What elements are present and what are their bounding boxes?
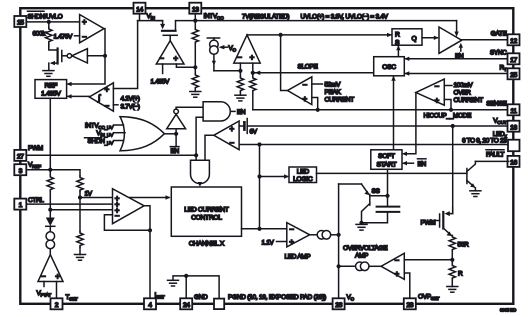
svg-text:HICCUP__MODE: HICCUP__MODE xyxy=(424,112,472,119)
op-amp VPTAT xyxy=(38,255,63,282)
current source PTAT xyxy=(46,232,55,255)
wire FAULT line xyxy=(475,160,508,162)
pin LEDx box xyxy=(508,140,520,152)
svg-text:OVERVOLTAGE: OVERVOLTAGE xyxy=(343,245,388,252)
svg-text:SS: SS xyxy=(372,188,381,195)
wire EN into SOFT START xyxy=(402,161,414,165)
node 52mV tap on SENSE xyxy=(316,108,320,112)
ground 1V resistor xyxy=(75,255,86,261)
svg-text:+: + xyxy=(105,85,110,94)
wire VOUT line xyxy=(247,125,509,127)
svg-text:+: + xyxy=(250,53,255,62)
svg-text:6V: 6V xyxy=(250,128,258,135)
ground GND pin network xyxy=(168,276,187,286)
label 100mV OVER CURRENT xyxy=(444,82,483,104)
svg-text:SENSE: SENSE xyxy=(486,100,507,107)
resistor INTVCC divider lower xyxy=(192,67,198,91)
svg-text:SLOPE: SLOPE xyxy=(298,64,319,71)
wire VIN line xyxy=(138,20,163,22)
svg-text:+: + xyxy=(303,94,308,103)
wire VC vertical xyxy=(338,184,340,298)
wire OSC to SOFT START vertical xyxy=(391,76,395,150)
svg-text:−: − xyxy=(115,211,120,220)
svg-text:PWM: PWM xyxy=(28,145,43,152)
svg-text:+: + xyxy=(173,54,178,63)
svg-text:17: 17 xyxy=(510,57,517,64)
wire into LED LOGIC xyxy=(260,174,290,178)
svg-text:100mV: 100mV xyxy=(454,82,474,89)
transistor M1 shutdown NMOS xyxy=(49,44,62,71)
wire soft start output xyxy=(387,169,389,206)
wire LED line xyxy=(239,144,509,146)
svg-text:6 TO 9, 20 TO 23: 6 TO 9, 20 TO 23 xyxy=(462,137,507,144)
node junction SHDN/600k xyxy=(47,20,51,24)
wire S input from OSC xyxy=(396,45,400,57)
pin 26 VC xyxy=(333,298,345,309)
svg-text:LOGIC: LOGIC xyxy=(293,176,313,183)
resistor slope/sense summing xyxy=(250,73,256,110)
gate AND output stage xyxy=(191,160,210,187)
transistor fault NPN xyxy=(467,161,476,190)
battery 6V xyxy=(239,119,247,134)
svg-text:SOFT: SOFT xyxy=(378,153,395,160)
node SS xyxy=(385,194,389,198)
op-amp VIN UVLO hysteresis comparator xyxy=(89,83,113,111)
wire exposed pad riser xyxy=(186,276,219,299)
svg-text:RT: RT xyxy=(500,64,507,73)
pin 18 VOUT xyxy=(508,121,520,132)
svg-text:+: + xyxy=(55,272,60,281)
wire pin 13 stub xyxy=(194,14,196,21)
resistor 1V to ground xyxy=(77,198,83,255)
svg-text:15: 15 xyxy=(17,20,24,27)
wire overvoltage minus to divider xyxy=(404,259,452,261)
wire LED LOGIC output to fault transistor base xyxy=(317,172,467,174)
svg-text:LED CURRENT: LED CURRENT xyxy=(184,207,228,214)
transistor M2 INTVCC pass device xyxy=(157,21,177,36)
wire HICCUP_MODE overcurrent output to soft start xyxy=(402,93,416,157)
node VOUT to PWM MOSFET xyxy=(451,124,455,128)
pin 4 ISET xyxy=(144,298,156,309)
svg-text:PEAK: PEAK xyxy=(325,89,342,96)
node overcurrent tap on SENSE xyxy=(449,108,453,112)
resistor VREF to clamp xyxy=(47,170,53,210)
svg-text:ISET: ISET xyxy=(155,292,165,301)
svg-text:START: START xyxy=(376,161,396,168)
wire GATE line xyxy=(462,39,509,41)
ground SS xyxy=(356,224,367,230)
svg-text:CURRENT: CURRENT xyxy=(454,97,484,104)
pin 28 OVPSET xyxy=(404,298,416,309)
svg-text:−: − xyxy=(237,53,242,62)
block SOFT START xyxy=(371,150,402,170)
label OVERVOLTAGE AMP xyxy=(343,245,388,259)
ground OVP divider xyxy=(447,287,458,293)
svg-text:+: + xyxy=(230,124,235,133)
label SHDN/UVLO xyxy=(28,11,63,20)
resistor VC minus to ground xyxy=(237,71,243,95)
block OSC xyxy=(374,57,405,76)
svg-text:+: + xyxy=(395,270,400,279)
pin 15 SHDN/UVLO xyxy=(14,16,26,27)
wire OR output xyxy=(164,133,176,135)
resistor R xyxy=(449,260,455,287)
wire 6V comparator output to AND xyxy=(205,135,214,160)
svg-text:28: 28 xyxy=(406,302,413,309)
svg-text:LED: LED xyxy=(297,169,310,176)
wire 1V line into LED current control xyxy=(80,195,171,199)
wire SLOPE line from OSC xyxy=(253,71,374,75)
wire 52mV + input to SENSE xyxy=(312,98,318,110)
svg-text:25: 25 xyxy=(510,72,517,79)
node 52mV comparator output join xyxy=(279,33,283,37)
node LED logic tap xyxy=(257,174,261,178)
svg-text:52mV: 52mV xyxy=(325,82,342,89)
svg-text:4.2V(+): 4.2V(+) xyxy=(121,96,140,103)
pin 24 GND xyxy=(180,298,192,309)
node VC LED amp xyxy=(337,233,341,237)
wire AND input2 / PWM vertical xyxy=(196,117,203,160)
wire SENSE line xyxy=(253,109,509,111)
wire SHDN line from pin 15 xyxy=(26,21,79,23)
wire error amp output to feedback and ISET xyxy=(144,206,150,298)
current mirror overvoltage xyxy=(339,262,381,271)
op-amp overvoltage xyxy=(381,253,404,279)
svg-text:Q: Q xyxy=(412,36,417,43)
svg-text:VOUT: VOUT xyxy=(493,117,507,126)
svg-text:−: − xyxy=(82,33,87,42)
wire TSET stub xyxy=(56,282,58,299)
svg-text:24: 24 xyxy=(183,302,190,309)
label 4.2V 3.7V thresholds xyxy=(113,96,139,111)
node SS cap ground xyxy=(359,221,363,225)
svg-text:REF: REF xyxy=(45,82,58,89)
node 1V xyxy=(78,195,82,199)
svg-text:CTRL: CTRL xyxy=(28,197,44,204)
transistor SS clamp xyxy=(362,184,388,223)
REF block 1.485V xyxy=(35,80,67,99)
pin 1 CTRL xyxy=(14,199,26,210)
op-amp overcurrent comparator xyxy=(416,79,444,105)
svg-text:1V: 1V xyxy=(85,191,93,198)
wire RT line arrow into OSC xyxy=(404,71,509,75)
svg-text:13: 13 xyxy=(192,6,199,13)
wire PWM comparator output R line xyxy=(247,33,392,37)
label EN bar xyxy=(170,134,179,155)
svg-text:PGND (10, 19, EXPOSED PAD (29): PGND (10, 19, EXPOSED PAD (29)) xyxy=(228,294,326,301)
op-amp LED current error amp 4-input xyxy=(113,189,145,224)
svg-text:−: − xyxy=(230,138,235,147)
wire REF box down to VREF line xyxy=(49,98,51,169)
wire INTVCC supply into driver xyxy=(454,21,458,37)
svg-text:18: 18 xyxy=(510,124,517,131)
svg-text:R: R xyxy=(458,271,463,278)
svg-text:56R: 56R xyxy=(458,242,470,249)
svg-text:1.485V: 1.485V xyxy=(151,79,171,86)
wire GND pin riser xyxy=(185,276,187,298)
node GND xyxy=(184,274,188,278)
svg-text:LED AMP: LED AMP xyxy=(285,253,311,260)
node INTVCC rail / divider xyxy=(193,19,197,23)
transistor PWM dimming MOSFET xyxy=(433,208,453,237)
svg-text:+: + xyxy=(289,237,294,246)
wire OR inputs xyxy=(114,125,126,141)
svg-text:−: − xyxy=(303,80,308,89)
svg-text:7V(REGULATED): 7V(REGULATED) xyxy=(242,13,289,20)
wire current source to PWM comparator minus xyxy=(214,70,241,72)
ground VC minus resistor xyxy=(235,95,246,101)
label VPTAT xyxy=(37,282,52,299)
svg-text:1.1V: 1.1V xyxy=(262,239,275,246)
gate OR undervoltage xyxy=(120,117,164,151)
node minus input xyxy=(238,69,242,73)
resistor INTVCC divider upper xyxy=(192,21,198,68)
label VC with arrow xyxy=(219,45,237,54)
svg-text:16: 16 xyxy=(510,160,517,167)
wire PWM line xyxy=(26,154,196,156)
svg-text:VREF: VREF xyxy=(28,162,41,171)
svg-text:GND: GND xyxy=(194,294,208,301)
svg-text:UVLO(+) = 3.8V, UVLO(−) = 3.4V: UVLO(+) = 3.8V, UVLO(−) = 3.4V xyxy=(301,13,389,20)
svg-text:EN: EN xyxy=(171,148,180,155)
wire EN into driver xyxy=(459,43,463,51)
label EN soft start xyxy=(418,159,427,168)
wire UVLO comparator output xyxy=(68,29,105,84)
wire VC to SS clamp transistor xyxy=(339,183,362,185)
svg-text:27: 27 xyxy=(17,154,24,161)
svg-text:R: R xyxy=(395,32,400,39)
svg-text:PWM: PWM xyxy=(421,219,436,226)
node EN bar xyxy=(174,132,178,136)
svg-text:VC: VC xyxy=(347,294,355,303)
svg-text:1.476V: 1.476V xyxy=(54,33,74,40)
wire LEDx sense vertical xyxy=(259,145,261,229)
op-amp UVLO comparator xyxy=(80,15,104,43)
op-amp INTVCC error amp xyxy=(156,35,184,64)
svg-text:TSET: TSET xyxy=(66,294,78,303)
current source VC controlled xyxy=(207,38,219,71)
wire hysteresis + input to VIN xyxy=(113,21,137,89)
svg-text:EN: EN xyxy=(418,161,427,168)
block LED CURRENT CONTROL xyxy=(171,187,241,236)
pin 25 RT xyxy=(508,68,520,79)
current mirror LED AMP output xyxy=(310,231,339,240)
svg-text:FAULT: FAULT xyxy=(486,151,504,158)
node VC overvoltage xyxy=(337,264,341,268)
svg-text:+: + xyxy=(435,96,440,105)
svg-text:12: 12 xyxy=(510,38,517,45)
resistor VREF to 1V xyxy=(77,176,83,198)
op-amp PWM comparator xyxy=(234,35,260,73)
svg-text:3965 BD: 3965 BD xyxy=(500,308,517,313)
node inverter tap xyxy=(103,54,107,58)
svg-text:−: − xyxy=(105,101,110,110)
svg-text:3.7V(−): 3.7V(−) xyxy=(121,103,140,110)
pin 13 INTVCC xyxy=(189,3,201,14)
pin exposed pad xyxy=(214,299,224,310)
wire SYNC line arrow into OSC xyxy=(404,57,509,61)
node slope summing xyxy=(251,71,255,75)
node feedback ISET xyxy=(148,228,152,232)
wire Q output to gate driver xyxy=(422,36,439,40)
op-amp gate driver xyxy=(439,27,462,53)
wire pin 14 stub xyxy=(139,14,141,21)
wire hysteresis comparator output arrow into REF xyxy=(67,94,90,98)
wire arrow into REF xyxy=(67,82,72,86)
node divider midpoint xyxy=(193,65,197,69)
op-amp LED AMP xyxy=(287,223,310,247)
node OVP divider xyxy=(450,258,454,262)
pin 14 VIN xyxy=(134,3,146,14)
pin 11 SENSE xyxy=(508,104,520,115)
wire overvoltage plus to OVPSET xyxy=(404,273,410,298)
wire feedback loop xyxy=(104,215,150,231)
label 1.1V xyxy=(262,239,287,246)
svg-text:SHDN_UV: SHDN_UV xyxy=(88,138,115,147)
wire VOUT down to PWM MOSFET xyxy=(452,126,454,214)
svg-text:GATE: GATE xyxy=(491,30,508,37)
svg-text:26: 26 xyxy=(335,302,342,309)
block LED LOGIC xyxy=(289,167,317,183)
svg-text:−: − xyxy=(289,225,294,234)
pin 16 FAULT xyxy=(508,156,520,167)
svg-text:CURRENT: CURRENT xyxy=(325,97,355,104)
svg-text:OSC: OSC xyxy=(382,64,396,71)
label SHDN_UV xyxy=(85,138,115,147)
ground fault transistor xyxy=(470,191,481,197)
svg-text:CONTROL: CONTROL xyxy=(191,215,222,222)
resistor 600k xyxy=(46,22,52,48)
svg-text:AMP: AMP xyxy=(355,252,368,259)
label 1.485V error amp reference xyxy=(151,64,171,86)
wire clamp row to amp xyxy=(50,209,112,211)
svg-text:−: − xyxy=(435,82,440,91)
svg-text:14: 14 xyxy=(136,6,143,13)
svg-text:VPTAT: VPTAT xyxy=(37,290,52,299)
node REF to VREF xyxy=(48,168,52,172)
svg-text:SYNC: SYNC xyxy=(490,49,507,56)
capacitor SS xyxy=(362,207,400,223)
node LED line to LED logic xyxy=(257,142,261,146)
wire LED box to LED amp minus xyxy=(242,228,287,230)
op-amp 6V comparator xyxy=(214,121,239,150)
svg-text:SHDN/UVLO: SHDN/UVLO xyxy=(28,13,63,20)
svg-text:11: 11 xyxy=(510,108,517,115)
ground INTVCC divider xyxy=(190,92,201,98)
ground shutdown MOSFET source xyxy=(43,71,54,77)
svg-text:1.485V: 1.485V xyxy=(41,91,61,98)
diode clamp xyxy=(46,210,55,232)
svg-text:VC: VC xyxy=(229,45,237,54)
pin 3 VREF xyxy=(14,164,26,175)
pin 12 GATE xyxy=(508,34,520,45)
svg-text:+: + xyxy=(82,17,87,26)
wire INTVCC rail xyxy=(176,20,457,22)
wire CTRL line xyxy=(26,203,112,205)
inverter EN xyxy=(167,107,203,134)
node clamp row xyxy=(48,208,52,212)
svg-text:−: − xyxy=(395,256,400,265)
label 52mV PEAK CURRENT xyxy=(312,82,354,104)
resistor 56R xyxy=(449,236,455,260)
node LED amp minus xyxy=(257,227,261,231)
pin 2 TSET xyxy=(51,298,63,309)
svg-text:−: − xyxy=(159,54,164,63)
pin 17 SYNC xyxy=(508,53,520,64)
wire error amp + input to divider xyxy=(176,64,195,67)
node PWM tee xyxy=(194,153,198,157)
op-amp 52mV peak current comparator xyxy=(281,35,312,105)
gate AND enable xyxy=(203,102,235,121)
svg-text:OVPSET: OVPSET xyxy=(418,293,439,302)
label FAULT xyxy=(486,150,504,159)
svg-text:600k: 600k xyxy=(33,31,47,38)
wire overcurrent + to SENSE xyxy=(444,100,451,110)
pin 27 PWM xyxy=(14,150,26,161)
svg-text:−: − xyxy=(41,272,46,281)
svg-text:OVER: OVER xyxy=(454,90,472,97)
svg-text:CHANNEL X: CHANNEL X xyxy=(189,240,225,247)
wire VREF line xyxy=(26,170,80,176)
inverter U2 gate driver for M1 xyxy=(62,49,105,63)
block RS flip-flop xyxy=(392,29,422,47)
label 1.476V xyxy=(54,33,80,40)
svg-text:EN: EN xyxy=(237,109,246,116)
